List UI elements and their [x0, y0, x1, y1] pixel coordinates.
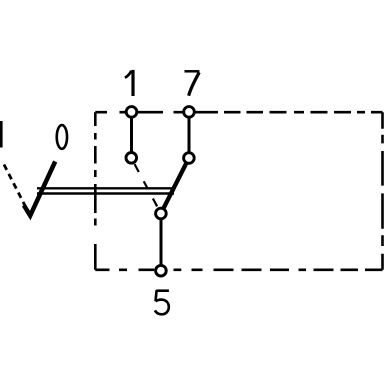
fixed contact circle of terminal 1 — [126, 153, 137, 164]
mechanical linkage lower line — [37, 192, 174, 194]
pivot contact circle — [156, 208, 167, 219]
moving contact arm (closed to contact 7) — [161, 158, 189, 214]
label 1 (terminal number) — [125, 70, 133, 96]
label 7 (terminal number) — [185, 71, 200, 95]
enclosure dash-dot frame, top edge — [95, 111, 382, 114]
terminal circle 1 — [126, 107, 137, 118]
wire terminal 1 to contact — [130, 112, 133, 158]
terminal circle 5 — [156, 265, 167, 276]
wire pivot to terminal 5 — [160, 214, 163, 271]
wire terminal 7 to contact — [188, 112, 191, 158]
terminal circle 7 — [184, 107, 195, 118]
actuator alternate position (dashed stroke) — [4, 165, 28, 212]
mechanical linkage upper line — [37, 187, 174, 189]
label 0 (switch position) — [57, 125, 67, 149]
label 1 cropped at left edge (switch position) — [0, 121, 3, 148]
enclosure dash-dot frame, bottom edge — [95, 268, 382, 271]
label 5 (terminal number) — [155, 290, 169, 314]
fixed contact circle of terminal 7 — [184, 153, 195, 164]
enclosure dash-dot frame, right edge — [381, 112, 384, 270]
moving contact arm alternate position (dashed, to contact 1) — [131, 158, 161, 214]
enclosure dash-dot frame, left edge — [94, 112, 97, 270]
actuator lever (solid, position 0) — [24, 162, 55, 216]
